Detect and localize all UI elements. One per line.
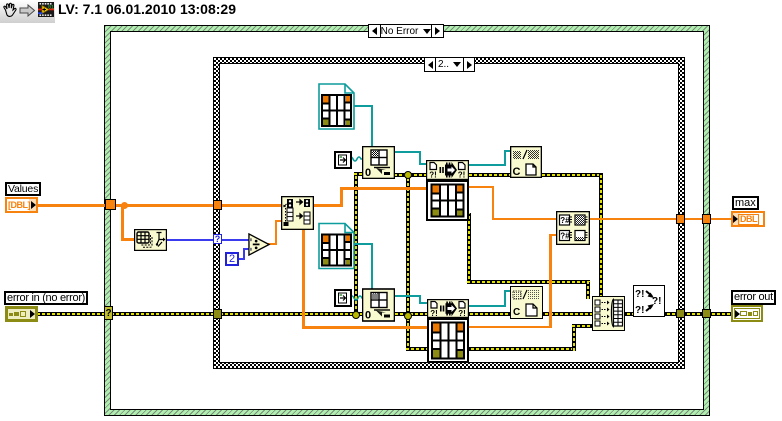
svg-text:?#: ?# bbox=[560, 232, 570, 241]
svg-text:0: 0 bbox=[365, 310, 371, 322]
svg-text:?#: ?# bbox=[560, 216, 570, 225]
svg-text:?!: ?! bbox=[635, 289, 644, 300]
svg-text:?!: ?! bbox=[458, 171, 466, 180]
svg-text:?!: ?! bbox=[652, 296, 661, 307]
svg-text:?!: ?! bbox=[458, 309, 466, 318]
svg-text:0: 0 bbox=[365, 167, 371, 179]
svg-text:C: C bbox=[513, 166, 521, 178]
svg-text:?!: ?! bbox=[635, 305, 644, 316]
svg-text:?!: ?! bbox=[430, 309, 438, 318]
svg-text:?!: ?! bbox=[429, 171, 437, 180]
svg-text:C: C bbox=[513, 307, 520, 318]
